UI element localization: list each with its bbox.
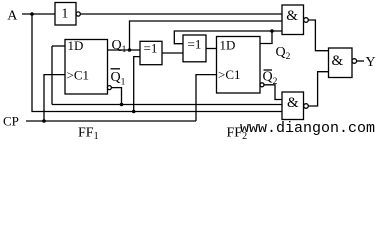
AND gate G5 output bubble	[304, 104, 309, 109]
node A input label	[7, 9, 18, 24]
wire FF1 1D input stub	[52, 45, 65, 47]
flip-flop FF1 box	[65, 40, 108, 95]
node Y output label	[366, 55, 376, 70]
wire Q2 feedback bus over XOR G3 to AND gate G4 pin 3	[174, 31, 282, 44]
node Q1 junction	[128, 48, 132, 52]
AND gate G5 label	[287, 95, 299, 111]
AND gate G6 label	[332, 53, 344, 69]
wire AND G5 output to AND gate G6 pin 2	[308, 72, 328, 106]
inverter G1 output bubble	[76, 12, 80, 16]
svg-text:Q2: Q2	[263, 70, 278, 88]
AND gate G4 box	[282, 5, 304, 35]
XOR gate G3 label =1	[188, 37, 202, 52]
FF2 Q2-bar output bubble	[260, 83, 264, 87]
node Q2 bus junction	[270, 29, 274, 33]
wire XOR G2 output to XOR G3 pin 2	[162, 52, 183, 54]
svg-text:&: &	[287, 95, 299, 111]
node A junction	[30, 12, 34, 16]
wire XOR G2 pin 2 stub from A bus	[134, 57, 140, 112]
watermark www.diangon.com	[240, 120, 375, 137]
svg-text:Q1: Q1	[112, 38, 127, 55]
wire Q2 output elbow up to bus	[260, 31, 272, 44]
node Q1 label	[112, 38, 127, 55]
node CP junction	[42, 119, 46, 123]
wire Q2-bar output elbow to AND gate G5 pin 1	[264, 85, 282, 100]
flip-flop FF2 label 1D	[220, 38, 236, 53]
svg-text:>C1: >C1	[218, 67, 241, 82]
XOR gate G3 box	[183, 35, 206, 62]
AND gate G4 label	[286, 8, 298, 24]
FF1 Q1-bar output bubble	[107, 86, 111, 90]
svg-text:Q1: Q1	[111, 70, 126, 88]
wire CP lead and clock bus	[26, 120, 196, 122]
wire XOR G3 output to FF2 1D input	[206, 48, 217, 50]
node Q2-bar label	[263, 70, 278, 88]
wire A input lead	[22, 13, 55, 15]
wire AND G4 output to AND gate G6 pin 1	[308, 20, 328, 51]
XOR gate G2 label =1	[144, 41, 158, 56]
svg-text:=1: =1	[188, 37, 202, 52]
wire Q1 riser and top bus to AND gate G4 pin 2	[130, 21, 283, 50]
wire NOT-A line to AND gate G4 pin 1	[80, 13, 282, 15]
svg-text:1D: 1D	[220, 38, 236, 53]
svg-text:Y: Y	[366, 55, 376, 70]
node A bus tap junction	[132, 110, 136, 114]
wire Y output lead	[357, 60, 364, 62]
node CP input label	[3, 114, 19, 129]
AND gate G5 box	[282, 92, 304, 120]
wire CP branch to FF2 C1 input	[196, 75, 217, 121]
svg-text:Q2: Q2	[276, 45, 291, 62]
AND gate G6 output bubble	[352, 59, 357, 64]
svg-text:&: &	[332, 53, 344, 69]
node Q2 label	[276, 45, 291, 62]
wire A vertical down and bottom A bus to AND gate G5	[32, 14, 282, 112]
svg-text:www.diangon.com: www.diangon.com	[240, 120, 375, 137]
wire CP branch to FF1 C1 input	[44, 75, 65, 121]
node Q1-bar bus junction	[120, 103, 124, 107]
flip-flop FF1 label 1D	[68, 38, 84, 53]
flip-flop FF1 name label	[78, 126, 99, 143]
inverter G1 box	[55, 3, 76, 26]
flip-flop FF2 label C1	[218, 67, 241, 82]
flip-flop FF2 name label	[227, 126, 248, 143]
svg-text:&: &	[286, 8, 298, 24]
AND gate G6 box	[329, 48, 353, 78]
wire Q1 output stub to XOR G2 pin 1	[108, 49, 141, 51]
AND gate G4 output bubble	[304, 18, 309, 23]
svg-text:=1: =1	[144, 41, 158, 56]
XOR gate G2 box	[140, 41, 162, 64]
flip-flop FF2 box	[217, 37, 261, 94]
inverter G1 label 1	[62, 6, 69, 21]
wire Q1-bar feedback vertical and bottom bus to AND gate G5	[52, 46, 282, 105]
flip-flop FF1 label C1	[67, 68, 90, 83]
svg-text:CP: CP	[3, 114, 19, 129]
svg-text:FF1: FF1	[78, 126, 99, 143]
svg-text:A: A	[7, 9, 18, 24]
svg-text:1D: 1D	[68, 38, 84, 53]
svg-text:>C1: >C1	[67, 68, 90, 83]
node Q1-bar label	[111, 69, 126, 88]
svg-text:1: 1	[62, 6, 69, 21]
wire Q1-bar output elbow down to bus	[111, 88, 121, 105]
